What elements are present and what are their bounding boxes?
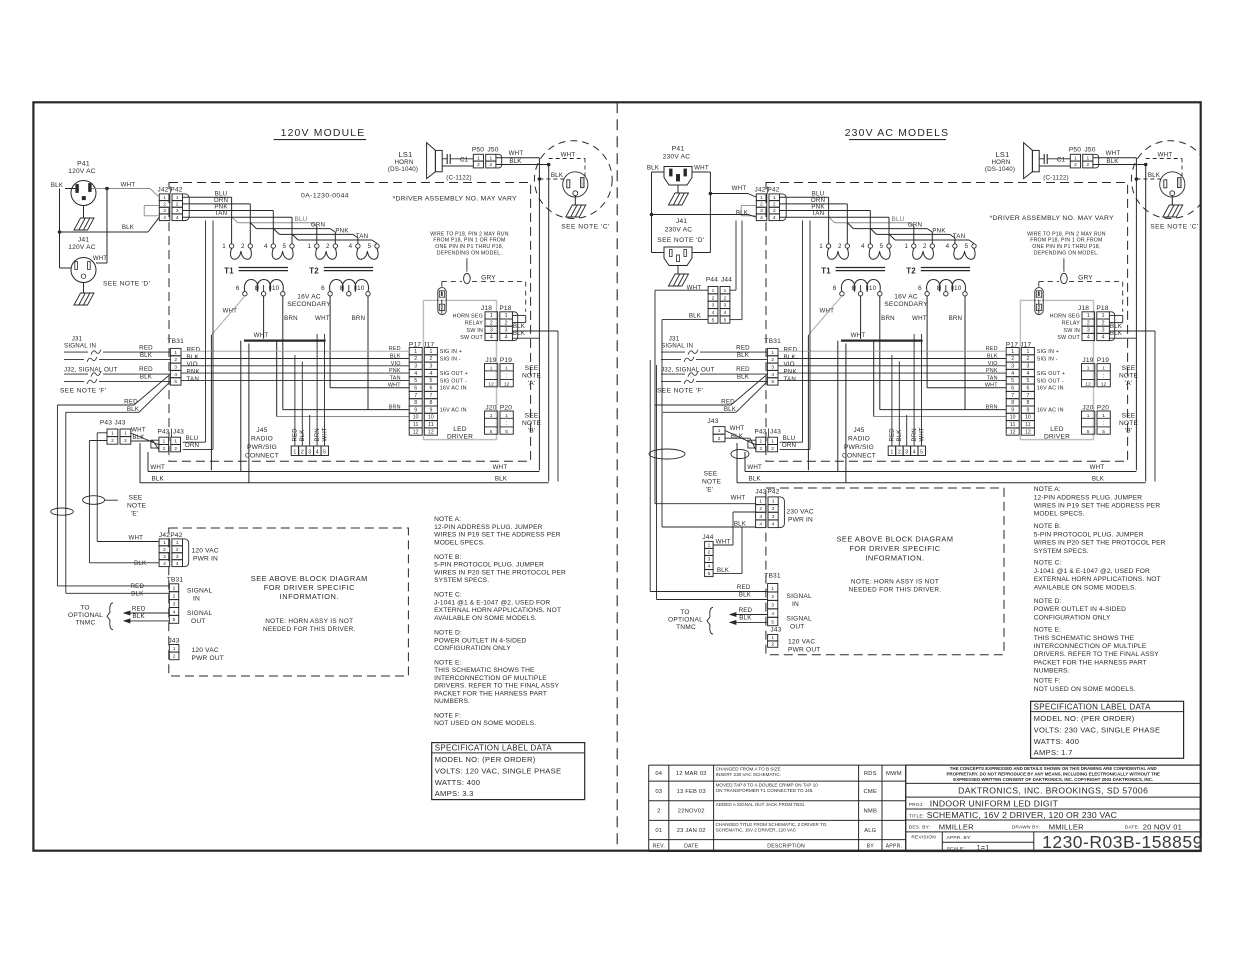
transformer secondary taps [328, 292, 332, 296]
wire from T1 secondary tap8 (L) [263, 296, 265, 339]
vertical wires from WHT bus to bottom bus (R) [837, 341, 839, 472]
svg-text:2: 2 [771, 446, 774, 452]
svg-text:1: 1 [1102, 365, 1105, 371]
svg-text:10: 10 [1025, 415, 1031, 421]
svg-text:AMPS: 3.3: AMPS: 3.3 [435, 789, 474, 798]
fuse holder (R) [1035, 288, 1043, 315]
svg-text:16V AC IN: 16V AC IN [1037, 386, 1064, 392]
svg-text:'E': 'E' [706, 487, 714, 494]
svg-text:(C-1122): (C-1122) [1043, 175, 1069, 182]
svg-text:J20: J20 [485, 404, 496, 411]
svg-text:SEE: SEE [525, 413, 539, 420]
svg-text:1: 1 [173, 586, 176, 592]
svg-text:8: 8 [441, 305, 444, 311]
power outlet symbol (L) [563, 172, 588, 197]
svg-text:5: 5 [771, 379, 774, 385]
wires into lower J42 (R) [655, 503, 756, 505]
wires into lower TB31 (R) [650, 591, 767, 593]
svg-text:BLK: BLK [152, 475, 165, 482]
svg-text:16V AC: 16V AC [894, 294, 918, 301]
svg-text:TNMC: TNMC [676, 624, 696, 631]
svg-text:LED: LED [1050, 426, 1063, 433]
LED driver outline box (L) [423, 300, 496, 439]
svg-text:5: 5 [490, 429, 493, 435]
wires down to lower TB31 (L) [56, 405, 58, 586]
svg-text:2: 2 [759, 506, 762, 512]
svg-text:TAN: TAN [812, 210, 825, 217]
svg-text:NOTE: NOTE [1119, 420, 1139, 427]
cable loop ellipse 1 (R) [649, 449, 685, 459]
svg-text:1: 1 [1011, 349, 1014, 355]
svg-text:4: 4 [176, 215, 179, 221]
svg-text:3: 3 [1011, 364, 1014, 370]
svg-text:NOTE: NOTE [127, 503, 147, 510]
svg-text:4: 4 [490, 335, 493, 341]
svg-text:BLK: BLK [1106, 158, 1119, 165]
svg-text:BLU: BLU [295, 216, 308, 223]
svg-text:1: 1 [176, 540, 179, 546]
svg-text:RED: RED [784, 347, 798, 354]
svg-text:ONE PIN IN P1 THRU P18,: ONE PIN IN P1 THRU P18, [435, 244, 503, 250]
svg-text:SEE NOTE 'C': SEE NOTE 'C' [1150, 224, 1198, 231]
svg-text:11: 11 [1025, 422, 1030, 428]
svg-text:2: 2 [173, 594, 176, 600]
svg-text:RED: RED [736, 366, 750, 373]
svg-text:230V AC MODELS: 230V AC MODELS [845, 128, 950, 139]
svg-text:NOTE D:: NOTE D: [434, 630, 462, 637]
svg-text:PWR/SIG: PWR/SIG [247, 444, 277, 451]
svg-text:1: 1 [176, 195, 179, 201]
svg-text:WHT: WHT [747, 464, 762, 471]
svg-text:NOTE A:: NOTE A: [1034, 486, 1061, 493]
drawing sheet border frame [33, 102, 1200, 850]
svg-text:9: 9 [1026, 407, 1029, 413]
svg-text:RELAY: RELAY [465, 321, 483, 327]
svg-text:2: 2 [111, 438, 114, 444]
svg-text:SEE NOTE 'D': SEE NOTE 'D' [657, 237, 704, 244]
wire trunk BLK vertical (L) [548, 165, 550, 482]
ground below outlet (R) [1163, 205, 1183, 217]
svg-text:J31: J31 [72, 336, 83, 343]
svg-text:PROJ:: PROJ: [909, 802, 924, 808]
svg-text:AMPS: 1.7: AMPS: 1.7 [1034, 748, 1073, 757]
svg-text:CHANGED FROM A TO B SIZE: CHANGED FROM A TO B SIZE [716, 767, 781, 772]
svg-text:J32, SIGNAL OUT: J32, SIGNAL OUT [661, 367, 715, 374]
transformer core [921, 267, 970, 269]
vertical wires from WHT bus to bottom bus (L) [240, 341, 242, 472]
svg-text:RED: RED [736, 345, 750, 352]
svg-text:BRN: BRN [949, 315, 963, 322]
svg-text:P42: P42 [170, 532, 182, 539]
svg-text:DATE: DATE [684, 844, 699, 850]
svg-text:3: 3 [760, 208, 763, 214]
svg-text:1: 1 [890, 449, 893, 455]
svg-text:5: 5 [708, 571, 711, 577]
svg-text:5: 5 [712, 317, 715, 323]
svg-text:5-PIN PROTOCOL PLUG. JUMPER: 5-PIN PROTOCOL PLUG. JUMPER [1034, 531, 1144, 538]
svg-text:TB31: TB31 [764, 338, 781, 345]
svg-text:SW IN: SW IN [466, 328, 483, 334]
svg-text:11: 11 [1010, 422, 1015, 428]
svg-text:1230-R03B-158859: 1230-R03B-158859 [1042, 832, 1203, 852]
svg-text:8: 8 [1011, 400, 1014, 406]
svg-text:WHT: WHT [128, 535, 143, 542]
svg-text:CONNECT: CONNECT [245, 453, 279, 460]
svg-text:PWR IN: PWR IN [788, 517, 813, 524]
svg-text:MODEL NO: (PER ORDER): MODEL NO: (PER ORDER) [1034, 714, 1135, 723]
transformer secondary taps [925, 292, 929, 296]
plug P41 IEC symbol [664, 167, 692, 186]
svg-text:DATE:: DATE: [1125, 825, 1140, 831]
svg-text:2: 2 [1026, 356, 1029, 362]
svg-text:4: 4 [760, 215, 763, 221]
svg-text:NOTE B:: NOTE B: [434, 554, 461, 561]
svg-text:4: 4 [349, 243, 353, 250]
twisted wires J43 to P43 (R) [725, 431, 756, 445]
svg-text:1: 1 [163, 540, 166, 546]
svg-text:5: 5 [724, 317, 727, 323]
wires into lower J42 (L) [97, 541, 159, 543]
signal wires TB31 to P17 (L) [181, 350, 409, 352]
svg-text:3: 3 [173, 601, 176, 607]
svg-text:8: 8 [937, 285, 941, 292]
svg-text:SPECIFICATION LABEL DATA: SPECIFICATION LABEL DATA [435, 744, 553, 753]
svg-text:CME: CME [864, 789, 877, 795]
svg-text:3: 3 [1102, 328, 1105, 334]
svg-text:4: 4 [264, 243, 268, 250]
svg-text:RED: RED [124, 399, 138, 406]
svg-text:2: 2 [898, 449, 901, 455]
svg-text:1: 1 [772, 499, 775, 505]
svg-text:TAN: TAN [356, 233, 369, 240]
transformer secondary winding [330, 280, 369, 292]
svg-text:NMB: NMB [864, 809, 877, 815]
svg-text:VIO: VIO [784, 361, 795, 368]
svg-text:BLK: BLK [749, 475, 762, 482]
svg-text:RED: RED [721, 399, 735, 406]
svg-text:J43: J43 [770, 429, 781, 436]
svg-text:P41: P41 [672, 146, 685, 153]
svg-text:1: 1 [1074, 155, 1077, 161]
svg-text:8: 8 [1026, 400, 1029, 406]
svg-text:BLK: BLK [131, 591, 144, 598]
svg-text:3: 3 [772, 514, 775, 520]
svg-text:WHT: WHT [131, 427, 146, 434]
svg-text:2: 2 [1011, 356, 1014, 362]
svg-text:DAKTRONICS, INC. BROOKINGS: DAKTRONICS, INC. BROOKINGS, SD 57006 [958, 786, 1148, 796]
svg-text:NOTE: HORN ASSY IS NOT: NOTE: HORN ASSY IS NOT [265, 618, 353, 625]
svg-text:BLK: BLK [551, 172, 564, 179]
svg-text:WHT: WHT [851, 332, 866, 339]
svg-text:NOTE: NOTE [522, 373, 542, 380]
svg-text:NOT USED ON SOME MODELS.: NOT USED ON SOME MODELS. [434, 720, 536, 727]
svg-text:BLK: BLK [300, 430, 306, 442]
svg-text:WHT: WHT [730, 425, 745, 432]
svg-text:RED: RED [293, 428, 299, 442]
svg-text:T2: T2 [906, 267, 916, 276]
svg-text::: : [1103, 421, 1105, 427]
svg-text:120V MODULE: 120V MODULE [281, 128, 366, 139]
svg-text:VOLTS: 120 VAC, SINGLE PHASE: VOLTS: 120 VAC, SINGLE PHASE [435, 767, 562, 776]
svg-text:1: 1 [490, 365, 493, 371]
svg-text:NUMBERS.: NUMBERS. [1034, 668, 1070, 675]
svg-text:WHT: WHT [1090, 464, 1105, 471]
svg-text::: : [506, 421, 508, 427]
svg-text:BLK: BLK [1092, 475, 1105, 482]
svg-text:230 VAC: 230 VAC [787, 509, 814, 516]
svg-text:J50: J50 [1084, 147, 1095, 154]
svg-text:P43: P43 [755, 429, 767, 436]
svg-text:WHT: WHT [150, 464, 165, 471]
svg-text:1: 1 [1087, 413, 1090, 419]
revision / scale cells [941, 832, 943, 852]
svg-text:J42: J42 [755, 187, 766, 194]
svg-text:6: 6 [1026, 386, 1029, 392]
svg-text:WHT: WHT [912, 315, 927, 322]
svg-text:120 VAC: 120 VAC [788, 639, 815, 646]
svg-text:'B': 'B' [1125, 428, 1133, 435]
svg-text:WIRE TO P18, PIN 2 MAY RUN: WIRE TO P18, PIN 2 MAY RUN [430, 231, 509, 237]
hook wires left of J42 (R) [741, 205, 756, 207]
svg-text:230V AC: 230V AC [663, 154, 690, 161]
svg-text:*DRIVER ASSEMBLY NO. MAY VARY: *DRIVER ASSEMBLY NO. MAY VARY [990, 215, 1114, 222]
svg-text:FROM P18, PIN 1 OR FROM: FROM P18, PIN 1 OR FROM [433, 238, 505, 244]
svg-text:RED: RED [130, 583, 144, 590]
svg-text:'A': 'A' [528, 380, 536, 387]
svg-text:P50: P50 [472, 147, 484, 154]
svg-text:POWER OUTLET IN 4-SIDED: POWER OUTLET IN 4-SIDED [1034, 606, 1126, 613]
svg-text:2: 2 [326, 243, 330, 250]
driver assembly dashed boundary box (R) [766, 183, 1128, 462]
svg-text:2: 2 [176, 202, 179, 208]
svg-text:BLK: BLK [717, 567, 730, 574]
twisted wires between P43 pairs [131, 433, 159, 445]
svg-text:WIRES IN P19 SET THE ADDRESS P: WIRES IN P19 SET THE ADDRESS PER [1034, 503, 1161, 510]
wire trunk BLK vertical (R) [1145, 165, 1147, 482]
svg-text:5-PIN PROTOCOL PLUG. JUMPER: 5-PIN PROTOCOL PLUG. JUMPER [434, 562, 544, 569]
svg-text:9: 9 [1011, 407, 1014, 413]
svg-text:SEE: SEE [1122, 365, 1136, 372]
svg-text:4: 4 [163, 215, 166, 221]
svg-text:2: 2 [162, 446, 165, 452]
svg-text:ORN: ORN [782, 442, 796, 449]
svg-text:PACKET FOR THE HARNESS PART: PACKET FOR THE HARNESS PART [1034, 659, 1147, 666]
transformer core [324, 267, 373, 269]
svg-text:3: 3 [1026, 364, 1029, 370]
svg-text:HORN: HORN [394, 159, 413, 166]
svg-text:MMILLER: MMILLER [1049, 822, 1084, 831]
svg-text:WHT: WHT [694, 165, 709, 172]
svg-text:1: 1 [163, 195, 166, 201]
svg-text:NOTE: NOTE [702, 479, 722, 486]
svg-text:2: 2 [772, 506, 775, 512]
svg-text:10: 10 [869, 285, 877, 292]
svg-text:J20: J20 [1082, 404, 1093, 411]
svg-text:20 NOV 01: 20 NOV 01 [1143, 822, 1182, 831]
svg-text:6: 6 [236, 285, 240, 292]
svg-text:10: 10 [357, 285, 365, 292]
svg-text:8: 8 [414, 400, 417, 406]
svg-text:6: 6 [429, 386, 432, 392]
svg-text:INFORMATION.: INFORMATION. [865, 554, 924, 563]
svg-text:VOLTS: 230 VAC, SINGLE PHASE: VOLTS: 230 VAC, SINGLE PHASE [1034, 725, 1161, 734]
svg-text:RED: RED [139, 345, 153, 352]
svg-text:12: 12 [413, 429, 419, 435]
svg-text:CHANGED TITLE FROM SCHEMATIC,: CHANGED TITLE FROM SCHEMATIC, 2 DRIVER T… [716, 822, 827, 827]
svg-text:6: 6 [833, 285, 837, 292]
svg-text:3: 3 [712, 303, 715, 309]
svg-text:FOR DRIVER SPECIFIC: FOR DRIVER SPECIFIC [264, 583, 355, 592]
svg-text:4: 4 [771, 372, 774, 378]
svg-text:P20: P20 [1097, 404, 1109, 411]
svg-text:5: 5 [965, 243, 969, 250]
svg-text:J42: J42 [159, 532, 170, 539]
svg-text:2: 2 [505, 320, 508, 326]
svg-text:1: 1 [505, 413, 508, 419]
svg-text:OPTIONAL: OPTIONAL [668, 617, 703, 624]
wire WHT down to J41 [106, 189, 108, 264]
svg-text:DRAWN BY:: DRAWN BY: [1012, 825, 1041, 831]
svg-text:1: 1 [414, 349, 417, 355]
svg-text:12-PIN ADDRESS PLUG. JUMPER: 12-PIN ADDRESS PLUG. JUMPER [434, 524, 543, 531]
svg-text:SIGNAL: SIGNAL [787, 593, 813, 600]
svg-text:ON TRANSFORMER T1 CONNECTED TO: ON TRANSFORMER T1 CONNECTED TO J45. [716, 788, 814, 793]
svg-text:2: 2 [174, 446, 177, 452]
svg-text:2: 2 [241, 243, 245, 250]
svg-text:4: 4 [913, 449, 916, 455]
svg-text:DRIVER: DRIVER [1044, 434, 1070, 441]
svg-text:3: 3 [163, 208, 166, 214]
svg-text:2: 2 [1074, 162, 1077, 168]
svg-text:12: 12 [1010, 429, 1016, 435]
svg-text:NOTE E:: NOTE E: [434, 659, 461, 666]
svg-text:12: 12 [1085, 381, 1091, 387]
junction dots on trunks (L) [547, 163, 551, 167]
svg-text:6: 6 [918, 285, 922, 292]
title block outline [906, 765, 1201, 851]
svg-text:P42: P42 [768, 187, 780, 194]
svg-text:PNK: PNK [335, 228, 349, 235]
svg-text:J19: J19 [1082, 357, 1093, 364]
svg-text:BLK: BLK [140, 352, 153, 359]
svg-text:CONNECT: CONNECT [842, 453, 876, 460]
svg-text:BLK: BLK [122, 224, 135, 231]
svg-text:(C-1122): (C-1122) [446, 175, 472, 182]
svg-text:4: 4 [316, 449, 319, 455]
svg-text:BRN: BRN [986, 405, 998, 411]
svg-text:NOTE F:: NOTE F: [434, 712, 461, 719]
svg-text:3: 3 [176, 208, 179, 214]
svg-text:BY: BY [867, 844, 875, 850]
svg-text:4: 4 [773, 215, 776, 221]
transformer core [836, 267, 885, 269]
svg-text:P41: P41 [77, 161, 90, 168]
cable loop ellipse 2 (R) [731, 449, 749, 458]
svg-text:SECONDARY: SECONDARY [287, 301, 331, 308]
svg-text:WHT: WHT [315, 315, 330, 322]
svg-text:WIRE TO P18, PIN 2 MAY RUN: WIRE TO P18, PIN 2 MAY RUN [1027, 231, 1106, 237]
svg-text:PWR OUT: PWR OUT [192, 655, 225, 662]
svg-text:12: 12 [428, 429, 434, 435]
svg-text:SECONDARY: SECONDARY [884, 301, 928, 308]
svg-text:LS1: LS1 [398, 150, 412, 159]
svg-text:2: 2 [708, 550, 711, 556]
svg-text:J41: J41 [78, 237, 90, 244]
svg-text:WIRES IN P19 SET THE ADDRESS P: WIRES IN P19 SET THE ADDRESS PER [434, 532, 561, 539]
svg-text:2: 2 [301, 449, 304, 455]
svg-text::: : [1103, 373, 1105, 379]
svg-text:T1: T1 [821, 267, 831, 276]
svg-text:2: 2 [429, 356, 432, 362]
svg-text:DEPENDING ON MODEL.: DEPENDING ON MODEL. [1034, 251, 1099, 257]
horn LS1 speaker symbol (R) [1024, 143, 1033, 179]
signal wires TB31 to P17 (R) [778, 350, 1006, 352]
svg-text:6: 6 [321, 285, 325, 292]
svg-text:REVISION: REVISION [911, 835, 936, 841]
svg-text:P50: P50 [1069, 147, 1081, 154]
wire trunk WHT vertical (R) [1135, 158, 1137, 471]
svg-text:3: 3 [771, 365, 774, 371]
svg-text:ORN: ORN [908, 222, 922, 229]
svg-text:1: 1 [477, 155, 480, 161]
svg-text:2: 2 [176, 547, 179, 553]
svg-text:AVAILABLE ON SOME MODELS.: AVAILABLE ON SOME MODELS. [1034, 584, 1137, 591]
specification label data box [432, 743, 585, 800]
svg-text:3: 3 [308, 449, 311, 455]
svg-text:WHT: WHT [1158, 152, 1173, 159]
svg-text:1: 1 [111, 431, 114, 437]
svg-text:(DS-1040): (DS-1040) [985, 166, 1015, 173]
svg-text:SEE NOTE 'D': SEE NOTE 'D' [103, 281, 150, 288]
svg-text:SYSTEM SPECS.: SYSTEM SPECS. [434, 577, 489, 584]
svg-text:8: 8 [1038, 292, 1041, 298]
svg-text:120V AC: 120V AC [68, 168, 95, 175]
svg-text:BLU: BLU [783, 435, 796, 442]
svg-text:TAN: TAN [953, 233, 966, 240]
svg-text:SIGNAL IN: SIGNAL IN [64, 343, 96, 350]
jack J41 IEC symbol (R) [664, 247, 692, 266]
svg-text:J45: J45 [853, 427, 864, 434]
svg-text:NOTE: HORN ASSY IS NOT: NOTE: HORN ASSY IS NOT [851, 579, 939, 586]
svg-text:INTERCONNECTION OF MULTIPLE: INTERCONNECTION OF MULTIPLE [1034, 643, 1147, 650]
svg-text:(DS-1040): (DS-1040) [388, 166, 418, 173]
svg-text:WIRES IN P20 SET THE PROTOCOL: WIRES IN P20 SET THE PROTOCOL PER [1034, 540, 1166, 547]
svg-text:J43: J43 [168, 638, 179, 645]
power outlet symbol (R) [1160, 172, 1185, 197]
svg-text:5: 5 [173, 617, 176, 623]
cable loop ellipse 1 (L) [83, 496, 105, 505]
svg-text:NOTE C:: NOTE C: [434, 592, 462, 599]
svg-text:J43: J43 [770, 627, 781, 634]
svg-text:SIG IN +: SIG IN + [1037, 349, 1059, 355]
wires from left P43 down [97, 432, 107, 434]
svg-text:TB31: TB31 [167, 338, 184, 345]
hook wires left of J42 (L) [144, 205, 159, 207]
svg-text:5: 5 [323, 449, 326, 455]
svg-text:4: 4 [1102, 335, 1105, 341]
svg-text:BLK: BLK [647, 165, 660, 172]
svg-text:TAN: TAN [215, 210, 228, 217]
svg-text:PNK: PNK [784, 369, 798, 376]
svg-text:SIGNAL: SIGNAL [187, 610, 213, 617]
svg-text:ALG: ALG [864, 828, 876, 834]
svg-text:PROPRIETARY. DO NOT REPRO: PROPRIETARY. DO NOT REPRODUCE BY ANY MEA… [947, 771, 1160, 776]
svg-text:5: 5 [1102, 429, 1105, 435]
svg-text:WATTS: 400: WATTS: 400 [435, 778, 481, 787]
svg-text:5: 5 [1087, 429, 1090, 435]
svg-text:T2: T2 [309, 267, 319, 276]
svg-text:5: 5 [283, 243, 287, 250]
